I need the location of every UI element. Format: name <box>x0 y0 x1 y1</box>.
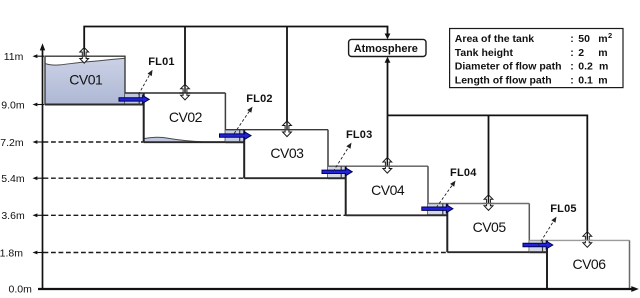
svg-text:CV03: CV03 <box>270 145 304 161</box>
wire manifold top <box>84 27 387 48</box>
svg-text:FL03: FL03 <box>346 129 372 141</box>
svg-text:Area of the tank: Area of the tank <box>455 33 535 45</box>
leader FL03 <box>333 147 349 172</box>
tick 1.8m <box>33 251 38 255</box>
svg-text:7.2m: 7.2m <box>0 137 24 149</box>
water sliver CV02 <box>144 137 226 142</box>
tank CV04 box <box>346 166 428 215</box>
vent arrow CV06 <box>583 232 592 248</box>
svg-text::: : <box>570 33 574 45</box>
leader FL01 <box>139 74 151 94</box>
vent arrow CV02 <box>181 84 190 100</box>
flow arrow FL05 <box>523 241 553 249</box>
dashed level line 1.8m <box>44 252 448 254</box>
info box <box>450 29 623 88</box>
svg-text:Tank height: Tank height <box>455 47 514 59</box>
tank CV02 box <box>144 93 226 142</box>
wire to CV02 vent <box>184 27 186 85</box>
dashed level line 7.2m <box>44 141 144 143</box>
vent arrow CV05 <box>484 195 493 211</box>
wire/edge overdraw through vent arrows <box>83 48 85 56</box>
svg-text:50: 50 <box>578 33 590 45</box>
svg-text:FL01: FL01 <box>148 56 174 68</box>
flow pipe P3 <box>328 166 346 178</box>
tick 9.0m <box>33 103 38 107</box>
vent arrow CV01 <box>80 48 89 64</box>
dashed level line 3.6m <box>44 214 346 216</box>
flow pipe P1 <box>125 93 144 105</box>
tank CV01 box <box>45 56 125 104</box>
svg-text:m: m <box>598 47 607 59</box>
flow arrow FL01 <box>119 96 149 104</box>
svg-text:5.4m: 5.4m <box>1 173 25 185</box>
svg-text::: : <box>570 75 574 87</box>
wire manifold2 <box>388 115 588 231</box>
flow arrow FL04 <box>422 205 453 213</box>
tick 11m <box>33 54 38 58</box>
tank CV05 box <box>447 204 529 253</box>
axis base line 0.0m <box>38 288 633 290</box>
tick 3.6m <box>33 213 38 217</box>
water fill CV01 <box>45 58 125 104</box>
svg-text:FL04: FL04 <box>450 167 477 179</box>
svg-text:CV06: CV06 <box>572 256 606 272</box>
leader FL04 <box>436 185 452 208</box>
svg-text:CV01: CV01 <box>69 72 103 88</box>
flow arrow FL03 <box>322 168 352 176</box>
svg-text::: : <box>570 61 574 73</box>
svg-text:2: 2 <box>608 31 612 40</box>
wire to CV03 vent <box>286 27 288 122</box>
svg-text:Length of flow path: Length of flow path <box>455 75 552 87</box>
vent arrow CV04 <box>383 158 392 174</box>
tick 5.4m <box>33 176 38 180</box>
svg-text:m: m <box>598 33 607 45</box>
leader FL02 <box>234 111 250 134</box>
axis vertical <box>42 48 44 290</box>
arrowhead into Atmosphere top <box>385 34 391 40</box>
flow pipe P2 <box>225 130 244 143</box>
flow pipe P5 <box>529 240 547 252</box>
wire Atmosphere bottom to manifold2 <box>387 60 389 115</box>
svg-text:11m: 11m <box>4 51 24 63</box>
svg-text:Diameter of flow path: Diameter of flow path <box>455 61 562 73</box>
wire to CV04 vent <box>387 115 389 157</box>
wire to CV05 vent <box>488 115 490 194</box>
tank CV06 box <box>547 240 630 289</box>
svg-text::: : <box>570 47 574 59</box>
tank CV03 box <box>244 130 328 179</box>
svg-text:3.6m: 3.6m <box>1 210 25 222</box>
svg-text:CV02: CV02 <box>169 109 203 125</box>
tick 7.2m <box>33 140 38 144</box>
svg-text:0.1: 0.1 <box>578 75 593 87</box>
Atmosphere box <box>349 39 426 56</box>
svg-text:9.0m: 9.0m <box>1 99 25 111</box>
vent arrow CV03 <box>283 121 292 137</box>
svg-text:FL05: FL05 <box>550 203 576 215</box>
dashed level line 5.4m <box>44 177 245 179</box>
svg-text:m: m <box>598 75 607 87</box>
svg-text:0.2: 0.2 <box>578 61 593 73</box>
arrowhead up into Atmosphere bottom <box>385 57 391 63</box>
svg-text:1.8m: 1.8m <box>0 247 23 259</box>
svg-text:m: m <box>599 61 608 73</box>
svg-text:Atmosphere: Atmosphere <box>354 43 418 55</box>
flow arrow FL02 <box>220 132 252 140</box>
leader FL05 <box>538 221 554 246</box>
svg-text:FL02: FL02 <box>246 93 272 105</box>
flow pipe P4 <box>428 204 447 216</box>
svg-text:0.0m: 0.0m <box>9 284 33 293</box>
svg-text:2: 2 <box>578 47 584 59</box>
svg-text:CV05: CV05 <box>473 219 507 235</box>
svg-text:CV04: CV04 <box>371 182 405 198</box>
